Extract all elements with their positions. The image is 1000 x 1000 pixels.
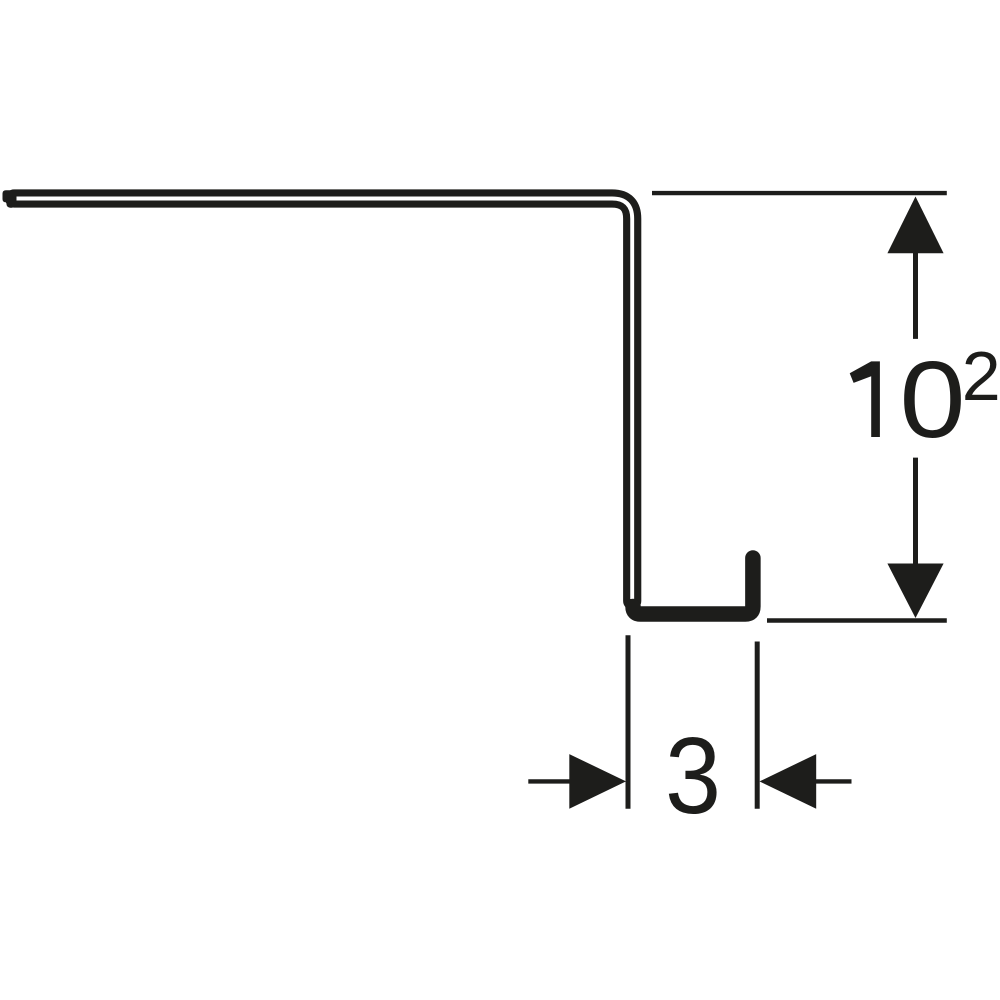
wire: right arrow tail [815,779,852,783]
svg-text:3: 3 [665,715,721,837]
svg-text:2: 2 [962,337,1000,415]
wire: bottom extension line of vertical dimension [767,618,947,623]
arrow up [887,197,943,254]
svg-text:0: 0 [900,339,966,461]
profile left end lower bump [7,198,16,208]
arrow right (left side) [569,754,626,809]
wire: vertical dimension line upper segment [913,250,918,339]
wire: left extension line of horizontal dimension [626,635,631,809]
arrow left (right side) [760,754,817,809]
white core of double line (sheet hollow) [17,199,633,600]
profile left end cap [3,190,15,202]
label 10^2 digit 1 (custom glyph, no foot serif) [850,361,880,437]
wire: top extension line of vertical dimension [652,191,947,195]
wire: vertical dimension line lower segment [913,458,918,566]
wire: left arrow tail [528,779,570,783]
profile cross-section outline (sheet metal trim), hollow double-line part [14,199,632,602]
profile solid bottom hook part [633,558,753,614]
arrow down [887,564,943,619]
wire: right extension line of horizontal dimension [755,642,760,809]
